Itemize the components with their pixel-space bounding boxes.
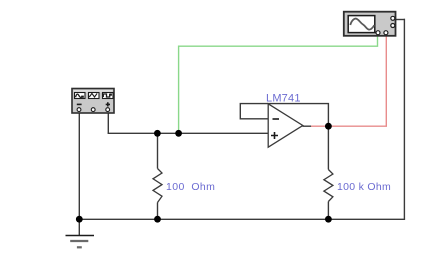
function generator minus terminal bbox=[77, 108, 81, 112]
op-amp U1 non-inverting input plus sign bbox=[271, 132, 278, 139]
oscilloscope bottom terminal A bbox=[376, 31, 380, 35]
function generator plus terminal bbox=[106, 108, 110, 112]
function generator plus terminal label bbox=[106, 102, 110, 106]
node: input junction at R1 top bbox=[154, 130, 161, 137]
node: op-amp output junction bbox=[325, 123, 332, 130]
resistor R2 zigzag bbox=[324, 170, 333, 202]
function generator sine-wave button bbox=[75, 93, 86, 99]
wire: R1 bottom lead bbox=[157, 203, 159, 220]
oscilloscope XSC1 body bbox=[344, 12, 396, 36]
oscilloscope bottom terminal B bbox=[384, 31, 388, 35]
oscilloscope right terminal 2 bbox=[391, 24, 395, 28]
function generator XFG1 body bbox=[72, 89, 114, 114]
function generator triangle-wave button bbox=[89, 93, 100, 99]
wire: input node horizontal to op-amp + input bbox=[108, 132, 269, 134]
wire: bottom ground rail bbox=[79, 218, 405, 220]
node: R1 bottom junction bbox=[154, 216, 161, 223]
wire: green oscilloscope channel A to input node bbox=[179, 34, 378, 134]
wire: right vertical rail down bbox=[403, 19, 405, 220]
function generator square-wave button (selected) bbox=[103, 93, 114, 99]
svg-text:LM741: LM741 bbox=[266, 93, 301, 105]
node: green probe junction bbox=[175, 130, 182, 137]
wire: op-amp output pin stub bbox=[303, 125, 312, 127]
resistor R1 zigzag bbox=[153, 169, 162, 203]
wire: function generator minus terminal down to ground node bbox=[78, 111, 80, 219]
wire: oscilloscope right terminal to right vertical rail bbox=[394, 19, 405, 21]
oscilloscope screen with sine trace bbox=[348, 16, 375, 33]
op-amp U1 triangle body bbox=[268, 104, 303, 147]
node: R2 bottom junction bbox=[325, 216, 332, 223]
function generator common terminal bbox=[91, 108, 95, 112]
svg-text:100 Ohm: 100 Ohm bbox=[166, 181, 215, 193]
svg-text:100 k Ohm: 100 k Ohm bbox=[337, 181, 391, 193]
wire: function generator plus terminal down bbox=[107, 111, 109, 133]
function generator minus terminal label bbox=[77, 103, 82, 105]
oscilloscope right terminal 1 bbox=[391, 16, 395, 20]
wire: feedback loop from inverting input over op-amp to output node bbox=[240, 104, 328, 127]
wire: R2 top lead from output node bbox=[327, 126, 329, 169]
node: ground junction bbox=[76, 216, 83, 223]
wire: R1 top lead bbox=[157, 133, 159, 168]
ground symbol bbox=[66, 219, 95, 247]
op-amp U1 inverting input minus sign bbox=[273, 118, 280, 120]
wire: R2 bottom lead bbox=[327, 202, 329, 220]
wire: red op-amp output to node and to oscilloscope channel B bbox=[311, 34, 386, 127]
